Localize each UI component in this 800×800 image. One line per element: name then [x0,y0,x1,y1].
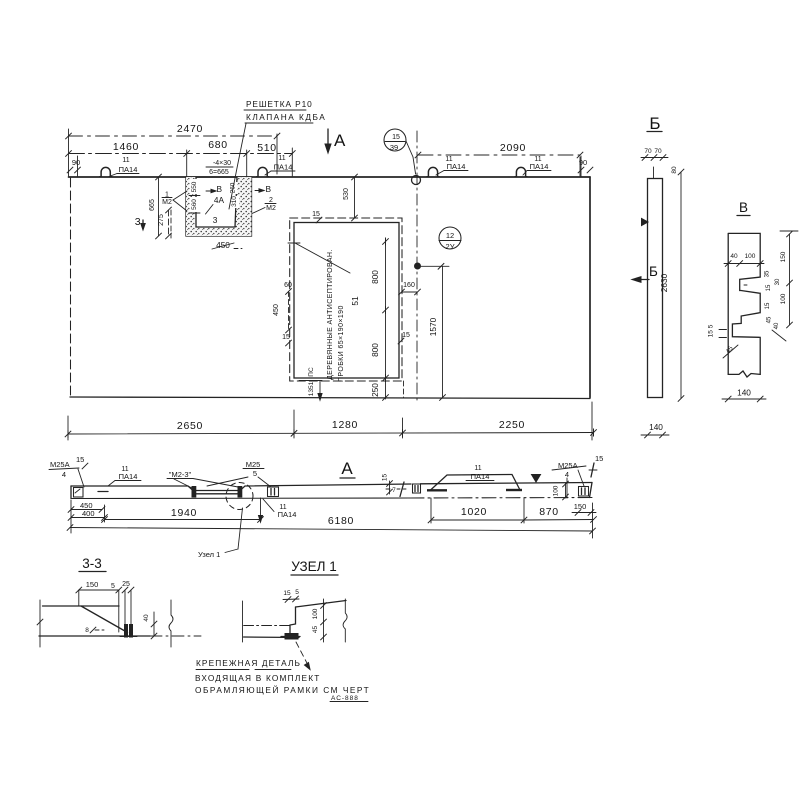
hump left foot [427,489,447,491]
panel top edge [69,176,591,178]
svg-text:3-3: 3-3 [82,556,102,571]
black dot on section line [415,263,421,269]
svg-text:665: 665 [149,199,156,211]
section line Б (vertical dash-dot) [416,131,418,404]
svg-text:140: 140 [649,422,663,432]
lifting loop 4 [515,167,528,176]
right anchor box [579,487,589,497]
strip right end [590,483,593,498]
svg-text:1570: 1570 [428,317,438,336]
dashed ext below channel [170,210,172,238]
dim 250 (rotated, below opening) [385,378,387,399]
svg-text:2У: 2У [446,242,455,251]
panel left edge (hidden/dashed) [70,178,72,397]
svg-text:В: В [217,184,223,194]
svg-text:ОБРАМЛЯЮЩЕЙ РАМКИ СМ ЧЕРТ: ОБРАМЛЯЮЩЕЙ РАМКИ СМ ЧЕРТ [195,684,370,695]
svg-text:530: 530 [343,188,350,200]
svg-text:Узел 1: Узел 1 [198,550,220,559]
dashed leader to note [296,642,309,667]
svg-text:40: 40 [774,322,780,329]
svg-text:КРЕПЕЖНАЯ ДЕТАЛЬ: КРЕПЕЖНАЯ ДЕТАЛЬ [196,658,301,668]
svg-text:ПА14: ПА14 [447,162,466,171]
anchor box at Б section line [413,484,421,493]
level line from dot [418,265,450,267]
svg-text:11: 11 [278,155,285,162]
М2-3 clip left [192,487,196,498]
panel right edge [589,177,591,398]
svg-text:2: 2 [269,197,273,204]
diagonal chamfer [81,606,128,633]
rotated dim 550 (left wall) [190,179,200,194]
extension line x277 [276,134,278,174]
svg-text:30: 30 [775,278,781,285]
svg-text:1940: 1940 [171,507,197,519]
balloon 15/39 [384,129,406,151]
svg-text:1280: 1280 [332,419,358,431]
svg-text:ПА14: ПА14 [530,162,549,171]
svg-text:100: 100 [745,253,756,260]
level mark triangle [532,475,541,483]
svg-text:ВХОДЯЩАЯ В КОМПЛЕКТ: ВХОДЯЩАЯ В КОМПЛЕКТ [195,673,321,683]
dim row 1460/680/510 line [69,153,293,155]
svg-text:15: 15 [595,454,603,463]
svg-text:15: 15 [312,211,320,218]
svg-text:М25: М25 [246,460,261,469]
svg-text:М25А: М25А [50,460,70,469]
svg-text:550: 550 [191,181,198,192]
svg-text:12: 12 [446,231,454,240]
svg-text:ДЕРЕВЯННЫЕ АНТИСЕПТИРОВАН.: ДЕРЕВЯННЫЕ АНТИСЕПТИРОВАН. [327,249,334,380]
loop in section (trapezoid hump) [430,475,520,491]
svg-text:М2: М2 [266,205,276,212]
fixing detail bars [125,625,128,638]
svg-text:15: 15 [382,474,389,482]
ext lines for 1940 [70,500,72,533]
svg-text:150: 150 [86,580,99,589]
svg-text:5: 5 [295,589,299,596]
svg-text:250: 250 [370,383,380,397]
balloon 12/2У [439,227,461,249]
strip bottom edge [71,497,410,500]
Z profile of fixing strip [290,607,296,634]
strip left end [70,486,72,499]
svg-text:39: 39 [390,143,398,152]
joint at section line: slash [400,482,404,497]
strip top edge [71,483,592,491]
svg-text:КЛАПАНА КДБА: КЛАПАНА КДБА [246,112,326,122]
svg-text:800: 800 [370,270,380,284]
svg-text:1020: 1020 [461,506,487,518]
svg-text:6=665: 6=665 [209,169,229,176]
svg-text:6180: 6180 [328,515,354,527]
svg-text:1351: 1351 [308,381,315,396]
svg-text:310: 310 [231,196,238,207]
svg-text:Б: Б [649,264,658,279]
В section arrow right [255,190,263,192]
svg-text:25: 25 [122,581,130,588]
channel inner cavity [196,177,237,227]
bottom surface line [244,636,299,639]
dim 2630 line [680,172,682,399]
svg-text:1460: 1460 [113,141,139,153]
extension line left end [68,129,70,176]
svg-text:2650: 2650 [177,420,203,432]
svg-text:275: 275 [158,214,165,226]
svg-text:В: В [739,200,748,215]
svg-text:ПА14: ПА14 [278,510,297,519]
break squiggle right [343,599,347,642]
extension line x247 [246,150,248,177]
svg-text:680: 680 [208,139,228,151]
svg-text:51: 51 [350,296,360,306]
svg-text:11: 11 [474,465,481,472]
svg-text:ПА14: ПА14 [274,163,293,172]
rotated dim 310 (right wall) [231,196,239,208]
А cut arrow (top) [327,129,329,151]
svg-text:4А: 4А [214,195,225,205]
dim 1570 (rotated) [442,266,444,398]
svg-text:В: В [266,184,272,194]
svg-text:ПА14: ПА14 [471,472,490,481]
svg-text:560: 560 [191,199,198,210]
svg-text:100: 100 [312,608,319,619]
svg-text:70: 70 [644,148,652,155]
svg-text:140: 140 [737,388,751,398]
rotated dim 560 (left wall) [190,197,200,212]
svg-text:АС-888: АС-888 [331,695,359,702]
svg-text:510: 510 [257,142,277,154]
opening inner contour [294,223,399,379]
top surface line [43,605,120,607]
left extension line [39,600,41,647]
svg-text:М2: М2 [162,199,172,206]
extension line x187 [186,150,188,183]
svg-text:15 5: 15 5 [708,324,715,337]
vertical edge [118,590,120,632]
small tick on left ext [37,619,43,625]
svg-text:80: 80 [671,166,678,174]
В bottom edge with break [728,371,760,377]
svg-text:"М2-3": "М2-3" [169,470,192,479]
opening outer dashed contour [290,218,402,381]
svg-text:400: 400 [82,509,95,518]
В body outline [728,233,760,374]
weld dash left [98,491,108,493]
svg-text:800: 800 [370,343,380,357]
Б level triangle [642,219,649,226]
lifting loop 1 [99,167,112,176]
svg-text:35: 35 [765,270,771,277]
svg-text:ПА14: ПА14 [119,472,138,481]
break squiggle right [169,600,173,647]
svg-text:870: 870 [539,506,559,518]
svg-text:100: 100 [780,293,787,304]
left extension line [242,601,244,642]
svg-text:150: 150 [780,251,787,262]
svg-text:15: 15 [402,332,410,339]
svg-text:2630: 2630 [659,273,669,292]
svg-text:2090: 2090 [500,142,526,154]
left anchor box М25А [74,488,84,498]
rotated dim 260 (right wall) [230,182,238,194]
svg-text:5: 5 [253,469,257,478]
svg-text:15: 15 [282,334,290,341]
svg-text:70: 70 [654,148,662,155]
svg-text:РЕШЕТКА Р10: РЕШЕТКА Р10 [246,99,313,109]
В right dim chain [789,234,791,325]
weld foot [285,634,298,640]
svg-text:Б: Б [649,114,660,133]
panel bottom edge [70,397,590,399]
Б body rectangle [648,179,663,398]
dim 2090 line [418,154,580,156]
svg-text:А: А [334,131,346,150]
channel outer wall [186,177,252,236]
svg-text:45: 45 [767,316,773,323]
right extension line with ticks [323,599,325,642]
channel left wall cell separators [189,195,200,197]
svg-text:ПС: ПС [308,367,315,377]
dim 2470 line [69,135,278,137]
svg-text:100: 100 [553,485,560,496]
svg-text:15: 15 [766,284,772,291]
svg-text:8: 8 [85,627,89,634]
dim line 800/800 inside opening [385,240,387,378]
svg-text:450: 450 [273,304,280,316]
centre anchor box М25 [268,487,279,497]
svg-text:15: 15 [765,302,771,309]
svg-text:А: А [341,459,353,478]
svg-text:60: 60 [284,282,292,289]
М2-3 clip right [238,487,242,498]
svg-text:90: 90 [72,158,80,167]
opening right edge dashed extension to bottom [403,381,405,398]
svg-text:ПА14: ПА14 [119,165,138,174]
hump right foot [506,489,522,491]
svg-text:150: 150 [574,502,587,511]
lifting loop 2 [256,167,269,176]
lifting loop 3 [427,167,440,176]
grommet at section line on top edge [412,176,421,185]
svg-text:160: 160 [403,282,415,289]
dash-dot surface line [244,625,292,627]
corner tick top-left of opening [293,237,295,245]
svg-text:2470: 2470 [177,123,203,135]
svg-text:45: 45 [312,626,319,634]
clip connecting plate [196,493,238,495]
svg-text:-4×30: -4×30 [213,160,231,167]
svg-text:40: 40 [143,614,150,622]
svg-text:УЗЕЛ 1: УЗЕЛ 1 [291,559,337,574]
В lower slot profile [732,313,759,338]
svg-text:5: 5 [111,583,115,590]
svg-text:40: 40 [730,253,738,260]
leader diagonal inside opening [295,243,350,273]
svg-text:2250: 2250 [499,419,525,431]
label leader into channel [229,124,246,210]
В upper slot profile [740,277,760,293]
bottom dim 2650/1280/2250 line [68,433,594,435]
узел 1 dashed circle [226,483,253,510]
svg-text:15: 15 [392,134,400,141]
svg-text:3: 3 [135,216,142,228]
svg-text:11: 11 [122,157,129,164]
svg-text:15: 15 [283,590,291,597]
svg-text:3: 3 [213,215,218,225]
svg-text:ПРОБКИ 65×190×190: ПРОБКИ 65×190×190 [338,305,345,382]
svg-text:4: 4 [62,470,66,479]
balloon leader [406,141,416,174]
channel wall stipple band [186,177,252,236]
bottom surface line [39,635,150,637]
В section arrow left [206,190,215,192]
svg-text:15: 15 [76,455,84,464]
extension line x292 [291,148,293,176]
top line of detail [296,601,347,608]
